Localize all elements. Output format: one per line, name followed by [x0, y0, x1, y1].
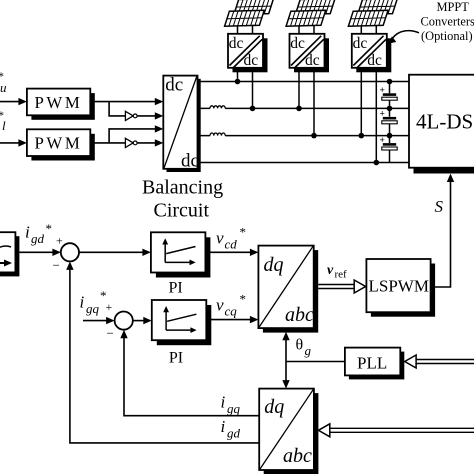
- wire PWM2 direct branch up: [109, 125, 163, 143]
- junction converter 3 bus 3: [359, 133, 365, 139]
- svg-text:g: g: [305, 343, 312, 358]
- wire converter 1 positive to bus 2: [252, 71, 254, 108]
- svg-text:+: +: [380, 110, 385, 120]
- wire PI 1 to dq1 with v_cd*: [205, 249, 258, 256]
- capacitor C1: [380, 86, 398, 100]
- wire PWM1 inverted branch: [109, 102, 125, 116]
- junction converter 1 bus 1: [235, 79, 241, 85]
- wire PWM2 to inverter: [90, 142, 125, 144]
- PV array 1 back panel: [234, 0, 274, 14]
- label v_cq*: [216, 292, 246, 319]
- wire PI 2 to dq1 with v_cq*: [206, 316, 258, 323]
- dq to abc transform block 1: [258, 246, 318, 333]
- PI block 1: [151, 232, 211, 277]
- svg-text:PLL: PLL: [357, 354, 387, 373]
- junction cap chain bus 3: [387, 133, 393, 139]
- svg-text:i: i: [221, 417, 226, 436]
- PWM block 2: [27, 129, 95, 160]
- svg-text:dc: dc: [181, 151, 199, 172]
- label i_gd reference: [25, 221, 52, 246]
- i_gq feedback wire to sum 2: [120, 330, 259, 416]
- wire converter 3 negative to bus 3: [360, 71, 362, 136]
- svg-text:dc: dc: [229, 35, 244, 52]
- junction converter 1 bus 2: [250, 106, 256, 112]
- dc bus line 4: [201, 162, 410, 164]
- wire LSPWM to 4L-DSC gate input: [431, 174, 455, 288]
- wire converter 1 negative to bus 1: [237, 71, 239, 82]
- svg-text:cd: cd: [225, 237, 238, 252]
- dc bus line 1: [201, 81, 410, 83]
- svg-text:gq: gq: [227, 401, 241, 416]
- balancing circuit block: [163, 75, 200, 173]
- wire sum 1 to PI 1: [79, 249, 151, 256]
- svg-text:*: *: [240, 225, 247, 240]
- junction converter 3 bus 4: [374, 160, 380, 166]
- svg-text:gq: gq: [86, 301, 100, 316]
- label S: [435, 197, 444, 216]
- wire PWM1 direct to balancing circuit: [90, 98, 163, 105]
- svg-text:dq: dq: [264, 396, 284, 418]
- svg-text:v: v: [216, 296, 224, 315]
- wire PV2 to converter 2: [299, 26, 314, 35]
- svg-text:(Optional): (Optional): [421, 29, 473, 43]
- svg-text:i: i: [221, 393, 226, 412]
- PI block 2: [152, 300, 212, 345]
- svg-text:Balancing: Balancing: [142, 177, 223, 199]
- svg-text:dc: dc: [290, 35, 305, 52]
- grid current double-line to dq2: [318, 424, 474, 437]
- converter block U1 4L-DSC: [409, 75, 474, 174]
- label i_gd: [221, 417, 241, 441]
- svg-text:gd: gd: [31, 231, 45, 246]
- svg-text:dc: dc: [244, 52, 259, 69]
- grid voltage double-line to PLL: [405, 355, 474, 368]
- svg-text:LSPWM: LSPWM: [369, 277, 429, 296]
- dc bus line 3: [201, 135, 410, 137]
- svg-text:gd: gd: [227, 426, 241, 441]
- svg-text:PI: PI: [169, 280, 183, 297]
- junction cap chain bus 2: [387, 106, 393, 112]
- summing junction 1: [53, 234, 80, 273]
- inductor on bus line 3: [210, 133, 225, 136]
- inverter gate on PWM2 line: [125, 138, 137, 147]
- wire sum 2 to PI 2: [133, 317, 152, 324]
- svg-text:−: −: [107, 326, 114, 341]
- label i_gq: [221, 393, 241, 417]
- summing junction 2: [107, 312, 133, 341]
- svg-text:PI: PI: [169, 350, 183, 367]
- svg-text:dc: dc: [367, 52, 382, 69]
- capacitor C2: [380, 110, 398, 124]
- PV array 1 front panel: [225, 10, 265, 26]
- svg-text:+: +: [56, 234, 63, 248]
- LSPWM block: [366, 259, 435, 317]
- svg-text:PWM: PWM: [35, 134, 83, 153]
- wire converter 2 positive to bus 3: [313, 71, 315, 136]
- label v_cd*: [216, 225, 246, 252]
- svg-text:ref: ref: [335, 269, 348, 281]
- svg-text:u: u: [0, 80, 7, 95]
- svg-text:+: +: [106, 300, 113, 314]
- capacitor C3: [380, 136, 398, 150]
- dc/dc converter 2: [290, 34, 330, 73]
- svg-text:dc: dc: [165, 75, 183, 96]
- svg-text:abc: abc: [283, 445, 312, 467]
- inductor on bus line 2: [210, 106, 225, 109]
- PV array 2 back panel: [295, 0, 335, 14]
- svg-text:cq: cq: [225, 304, 238, 319]
- PWM block 1: [27, 89, 95, 120]
- svg-text:dq: dq: [264, 254, 284, 276]
- svg-text:l: l: [2, 118, 6, 133]
- label m_l reference (clipped): [0, 108, 6, 133]
- controller block (clipped at left edge): [0, 232, 19, 276]
- dc-link capacitor chain wire: [389, 82, 391, 163]
- v_ref double-line to LSPWM: [318, 280, 365, 293]
- label i_gq reference: [80, 288, 113, 316]
- svg-text:PWM: PWM: [35, 93, 83, 112]
- PV array 3 front panel: [348, 10, 388, 26]
- svg-text:dc: dc: [353, 35, 368, 52]
- wire PV3 to converter 3: [361, 26, 376, 35]
- wire inverter to balancing circuit: [137, 112, 163, 119]
- wire converter 3 positive to bus 4: [375, 71, 377, 163]
- junction converter 2 bus 2: [296, 106, 302, 112]
- wire input to PWM 2: [0, 139, 27, 146]
- label theta_g: [296, 337, 312, 359]
- dc/dc converter 3: [352, 34, 392, 73]
- dc/dc converter 1: [228, 34, 268, 73]
- i_gd feedback wire to sum 1: [66, 261, 259, 443]
- svg-text:i: i: [25, 223, 30, 242]
- svg-text:−: −: [53, 258, 60, 273]
- svg-text:+: +: [380, 136, 385, 146]
- dq to abc transform block 2: [259, 389, 318, 474]
- svg-text:*: *: [240, 292, 247, 307]
- arrow from label to converter 3: [389, 31, 419, 44]
- label Balancing Circuit: [142, 177, 223, 222]
- label MPPT Converters (Optional): [421, 0, 474, 43]
- svg-text:dc: dc: [305, 52, 320, 69]
- PV array 2 front panel: [286, 10, 326, 26]
- junction cap chain bus 1: [387, 79, 393, 85]
- svg-text:Converters: Converters: [421, 14, 474, 28]
- label m_u reference (clipped): [0, 69, 7, 95]
- svg-text:MPPT: MPPT: [437, 0, 470, 14]
- junction converter 2 bus 3: [311, 133, 317, 139]
- inverter gate on PWM1 branch: [125, 111, 137, 120]
- svg-text:i: i: [80, 293, 85, 312]
- wire PV1 to converter 1: [238, 26, 253, 35]
- dc bus line 2: [201, 107, 410, 109]
- wire converter 2 negative to bus 2: [298, 71, 300, 108]
- svg-text:+: +: [380, 86, 385, 96]
- wire controller to sum 1: [19, 249, 61, 256]
- label PI 2: [169, 350, 183, 367]
- svg-text:v: v: [216, 229, 224, 248]
- label PI 1: [169, 280, 183, 297]
- svg-text:abc: abc: [285, 304, 314, 326]
- PV array 3 back panel: [358, 0, 398, 14]
- svg-text:*: *: [46, 221, 53, 236]
- svg-text:S: S: [435, 197, 444, 216]
- theta_g wire between dq blocks and PLL: [282, 332, 345, 389]
- label v_ref: [327, 263, 347, 281]
- wire inverter 2 to balancing circuit: [137, 139, 163, 146]
- svg-text:Circuit: Circuit: [154, 200, 210, 222]
- svg-text:v: v: [327, 263, 334, 278]
- wire i_gq* to sum 2: [83, 317, 115, 324]
- svg-text:4L-DSC: 4L-DSC: [416, 110, 474, 134]
- svg-text:θ: θ: [296, 337, 304, 354]
- PLL block: [345, 348, 404, 380]
- wire input to PWM 1: [0, 98, 27, 105]
